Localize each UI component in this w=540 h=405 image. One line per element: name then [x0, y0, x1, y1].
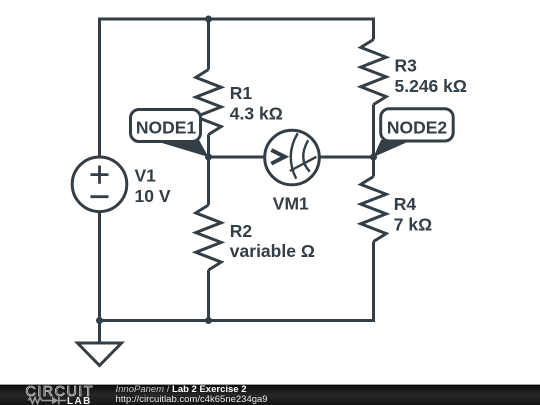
- wire V1 bottom + bottom wire + R4 bottom lead: [100, 211, 374, 321]
- svg-text:4.3 kΩ: 4.3 kΩ: [230, 103, 283, 123]
- svg-text:5.246 kΩ: 5.246 kΩ: [395, 76, 467, 96]
- svg-text:http://circuitlab.com/c4k65ne2: http://circuitlab.com/c4k65ne234ga9: [116, 394, 268, 405]
- wire left + top + R3 top lead: [100, 19, 374, 158]
- svg-text:NODE2: NODE2: [387, 118, 448, 138]
- svg-text:10 V: 10 V: [135, 186, 171, 206]
- voltage source V1: [72, 157, 127, 212]
- ground: [78, 343, 122, 366]
- wire ground lead: [98, 321, 101, 344]
- resistor R1: [196, 70, 221, 135]
- wire R2 bottom lead: [207, 270, 210, 321]
- junction dot bottom middle: [205, 317, 212, 324]
- svg-text:7 kΩ: 7 kΩ: [394, 214, 432, 234]
- wire voltmeter to NODE2: [319, 156, 374, 159]
- node NODE1 flag: [131, 110, 209, 158]
- svg-text:R1: R1: [230, 83, 253, 103]
- wire R3 bottom to R4 top (node NODE2): [372, 105, 375, 177]
- svg-text:LAB: LAB: [67, 396, 92, 405]
- footer CircuitLab logo: [26, 384, 94, 405]
- svg-text:NODE1: NODE1: [136, 118, 197, 138]
- node NODE2 junction dot: [370, 154, 377, 161]
- node NODE2 flag: [374, 109, 454, 157]
- resistor R2: [196, 205, 221, 270]
- wire R1 bottom to R2 top (node NODE1): [207, 135, 210, 206]
- svg-text:R3: R3: [395, 55, 418, 75]
- wire NODE1 to voltmeter: [209, 156, 266, 159]
- junction dot bottom left: [96, 317, 103, 324]
- voltmeter VM1: [265, 130, 320, 185]
- footer bar: [0, 385, 540, 405]
- svg-text:VM1: VM1: [273, 194, 309, 214]
- label V1 value: [135, 55, 467, 261]
- svg-text:R4: R4: [394, 194, 417, 214]
- svg-text:V1: V1: [135, 165, 157, 185]
- junction dot top: [205, 16, 212, 23]
- svg-text:variable Ω: variable Ω: [230, 241, 315, 261]
- resistor R3: [361, 40, 386, 105]
- node NODE1 junction dot: [205, 154, 212, 161]
- resistor R4: [361, 177, 386, 242]
- wire R1 top lead: [207, 19, 210, 70]
- svg-text:R2: R2: [230, 221, 253, 241]
